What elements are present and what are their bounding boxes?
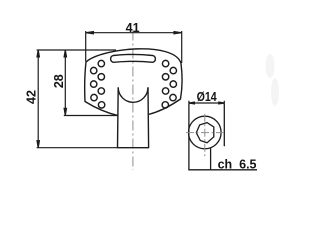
extension line 42 bottom [37,147,118,149]
side view narrow stem [210,148,212,170]
crosshair horizontal [186,132,226,134]
body outline (front view) [85,49,182,116]
holes left group [91,60,105,108]
extension line 42 top [37,49,116,51]
dimension Ø14 arrows [189,101,224,104]
dimension 41 line [86,32,182,34]
circle Ø14 [189,116,222,149]
slot (top center) [111,54,156,62]
extension line 41 left [85,31,87,62]
holes right group [162,60,176,108]
faint scan smudge right edge [266,54,280,106]
extension line 28 bottom [64,115,118,117]
svg-text:41: 41 [126,21,140,35]
dimension 28 line [64,50,66,115]
centerline vertical (main view) [132,31,134,171]
svg-text:42: 42 [24,90,38,104]
extension line 41 right [181,31,183,63]
side view outline wide part [189,103,224,170]
dimension 42 line [37,50,39,148]
U-arch cutout [118,87,148,102]
svg-text:28: 28 [52,74,66,88]
bottom line / ch leader [188,169,257,171]
svg-text:ch 6.5: ch 6.5 [218,157,257,171]
crosshair vertical [204,114,206,159]
hex profile inside circle [196,123,214,143]
svg-text:Ø14: Ø14 [197,90,218,104]
stem (front view) [118,87,149,147]
